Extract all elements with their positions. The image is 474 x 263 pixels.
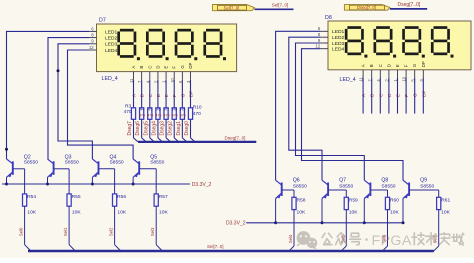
svg-text:Sel0: Sel0 [18, 227, 23, 236]
svg-text:R8: R8 [172, 107, 178, 112]
svg-text:Q7: Q7 [339, 178, 346, 184]
svg-text:A: A [131, 66, 136, 69]
svg-text:R5: R5 [148, 107, 154, 112]
svg-text:Sel1: Sel1 [63, 227, 68, 236]
svg-text:Q8: Q8 [381, 178, 388, 184]
svg-text:C: C [147, 65, 152, 68]
svg-text:R6: R6 [156, 107, 162, 112]
svg-text:LED_4: LED_4 [102, 76, 118, 82]
svg-text:D3.3V_2: D3.3V_2 [192, 182, 212, 188]
svg-text:FPGA: FPGA [372, 233, 412, 249]
svg-text:B: B [139, 66, 144, 69]
svg-text:Dseg6: Dseg6 [135, 121, 141, 136]
svg-text:LED1: LED1 [105, 29, 118, 35]
svg-text:Sel3: Sel3 [150, 227, 155, 236]
svg-text:S8550: S8550 [293, 183, 307, 189]
svg-text:R55: R55 [72, 194, 81, 200]
svg-text:R61: R61 [441, 197, 450, 203]
svg-text:470: 470 [180, 113, 186, 117]
svg-text:470: 470 [164, 113, 170, 117]
svg-text:R10: R10 [193, 104, 202, 110]
svg-text:B: B [369, 64, 374, 67]
svg-text:S8550: S8550 [420, 183, 434, 189]
svg-text:D7: D7 [99, 17, 106, 23]
svg-text:Sel2: Sel2 [108, 227, 113, 236]
svg-text:470: 470 [155, 113, 161, 117]
svg-text:R57: R57 [159, 194, 168, 200]
svg-text:Dseg0: Dseg0 [184, 121, 190, 136]
svg-text:C: C [378, 64, 383, 67]
svg-text:10K: 10K [297, 210, 306, 216]
svg-text:Dseg1: Dseg1 [176, 121, 182, 136]
svg-text:Q6: Q6 [293, 178, 300, 184]
svg-text:R9: R9 [180, 107, 186, 112]
svg-text:470: 470 [172, 113, 178, 117]
svg-text:470: 470 [193, 111, 201, 117]
svg-text:Dseg[7..0]: Dseg[7..0] [398, 2, 421, 8]
svg-text:Dseg7: Dseg7 [127, 121, 133, 136]
svg-text:R54: R54 [27, 194, 36, 200]
svg-text:R4: R4 [140, 107, 146, 112]
svg-text:R3: R3 [125, 103, 131, 109]
svg-text:S8550: S8550 [24, 159, 38, 165]
svg-text:LED4: LED4 [105, 48, 118, 54]
svg-text:10K: 10K [159, 210, 168, 216]
svg-text:S8550: S8550 [110, 159, 124, 165]
svg-text:470: 470 [147, 113, 153, 117]
svg-text:Dseg[7..0]: Dseg[7..0] [225, 136, 246, 141]
svg-text:10K: 10K [441, 210, 450, 216]
svg-text:S8550: S8550 [65, 159, 79, 165]
svg-text:D3.3V_2: D3.3V_2 [226, 221, 246, 227]
svg-text:F: F [404, 64, 409, 67]
svg-text:Dseg5: Dseg5 [143, 121, 149, 136]
svg-text:LED3: LED3 [332, 41, 345, 47]
svg-text:10K: 10K [27, 210, 36, 216]
svg-text:Sel4: Sel4 [288, 234, 293, 243]
svg-text:LED_4: LED_4 [340, 77, 356, 83]
svg-text:D8: D8 [325, 15, 332, 21]
svg-text:10K: 10K [349, 210, 358, 216]
svg-text:12: 12 [316, 44, 321, 49]
svg-text:12: 12 [89, 45, 94, 50]
svg-text:Sel[7..0]: Sel[7..0] [207, 244, 224, 249]
svg-text:Dseg[7..0]: Dseg[7..0] [357, 5, 376, 10]
svg-text:LED3: LED3 [105, 42, 118, 48]
svg-text:LED2: LED2 [332, 35, 345, 41]
svg-text:LED4: LED4 [332, 47, 345, 53]
svg-text:Q9: Q9 [420, 178, 427, 184]
svg-text:DP: DP [188, 62, 193, 68]
svg-text:R7: R7 [164, 107, 170, 112]
svg-text:Dseg4: Dseg4 [151, 121, 157, 136]
svg-text:A: A [361, 64, 366, 67]
svg-text:F: F [172, 66, 177, 69]
svg-text:470: 470 [139, 113, 145, 117]
svg-text:S8550: S8550 [381, 183, 395, 189]
svg-text:Sel[7..0]: Sel[7..0] [224, 5, 240, 10]
svg-text:Dseg2: Dseg2 [168, 121, 174, 136]
svg-text:470: 470 [124, 109, 132, 115]
svg-text:Sel[7..0]: Sel[7..0] [272, 2, 289, 7]
svg-text:S8550: S8550 [150, 159, 164, 165]
svg-text:Dseg3: Dseg3 [160, 121, 166, 136]
svg-text:LED1: LED1 [332, 29, 345, 35]
svg-text:R60: R60 [390, 197, 399, 203]
svg-text:LED2: LED2 [105, 36, 118, 42]
svg-text:E: E [395, 64, 400, 67]
svg-text:D: D [386, 64, 391, 67]
svg-text:DP: DP [421, 61, 426, 67]
svg-text:10K: 10K [117, 210, 126, 216]
svg-text:10K: 10K [390, 210, 399, 216]
svg-text:R56: R56 [117, 194, 126, 200]
svg-text:D: D [155, 65, 160, 68]
svg-text:E: E [164, 66, 169, 69]
svg-text:R59: R59 [349, 197, 358, 203]
svg-text:R58: R58 [297, 197, 306, 203]
svg-text:10K: 10K [72, 210, 81, 216]
svg-text:S8550: S8550 [339, 183, 353, 189]
